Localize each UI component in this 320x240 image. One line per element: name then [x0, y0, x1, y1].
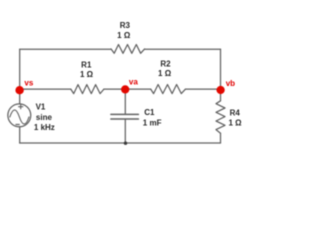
resistor R4 [216, 101, 225, 133]
svg-text:1 kHz: 1 kHz [34, 123, 55, 132]
wire R1 to va [104, 88, 125, 90]
wire bottom rail [20, 142, 221, 144]
wire top-left segment [20, 48, 111, 50]
svg-text:V1: V1 [36, 103, 46, 112]
voltage source V1 plus sign [19, 105, 23, 109]
svg-text:1 Ω: 1 Ω [229, 119, 243, 128]
wire vs to R1 [20, 88, 71, 90]
svg-text:R2: R2 [160, 59, 171, 68]
wire C1 bottom to bottom rail [124, 120, 126, 143]
wire R2 to vb [186, 88, 221, 90]
svg-text:C1: C1 [144, 108, 155, 117]
capacitor C1 top plate [111, 113, 138, 115]
svg-text:1 Ω: 1 Ω [158, 69, 172, 78]
svg-text:R3: R3 [120, 21, 131, 30]
node vb dot [216, 86, 224, 94]
resistor R3 [111, 45, 145, 54]
resistor R1 [71, 85, 104, 94]
node vs dot [15, 86, 23, 94]
svg-text:1 mF: 1 mF [143, 119, 162, 128]
wire R4 bottom to bottom rail [220, 133, 222, 143]
svg-text:R4: R4 [230, 108, 241, 117]
svg-text:vs: vs [24, 79, 33, 88]
wire top-right segment [145, 48, 221, 50]
wire va to C1 top [124, 89, 126, 114]
voltage source V1 sine wave [10, 110, 29, 124]
resistor R2 [151, 85, 186, 94]
wire right rail upper [220, 49, 222, 89]
voltage source V1 circle [8, 104, 31, 127]
capacitor C1 bottom plate [111, 118, 138, 120]
wire vb to R4 top [220, 89, 222, 101]
wire V1 bottom to bottom rail [19, 127, 21, 143]
wire va to R2 [125, 88, 150, 90]
wire left rail upper [19, 49, 21, 89]
svg-text:sine: sine [36, 113, 53, 122]
svg-text:1 Ω: 1 Ω [80, 70, 94, 79]
voltage source V1 minus sign [16, 124, 19, 126]
svg-text:vb: vb [226, 79, 235, 88]
svg-text:va: va [129, 77, 138, 86]
svg-text:1 Ω: 1 Ω [117, 31, 131, 40]
svg-text:R1: R1 [81, 61, 92, 70]
wire vs to V1 top [19, 89, 21, 103]
node va dot [121, 85, 129, 93]
junction C1 bottom rail [124, 142, 127, 145]
